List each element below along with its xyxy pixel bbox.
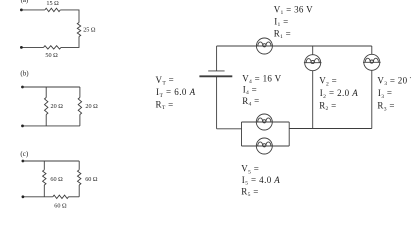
node: terminal a bottom — [20, 46, 23, 49]
svg-text:R2 =: R2 = — [319, 100, 336, 112]
svg-text:V3 = 20 V: V3 = 20 V — [377, 76, 411, 88]
wire b branch1 top — [45, 87, 47, 98]
wire branch 2 upper — [312, 46, 314, 55]
lamp 4 (box top) — [255, 114, 273, 130]
node: terminal c bottom — [22, 195, 25, 198]
wire main top — [217, 45, 372, 47]
node: terminal b top — [21, 86, 24, 89]
svg-text:I5 = 4.0 A: I5 = 4.0 A — [242, 175, 280, 187]
wire c bottom-right — [69, 196, 80, 198]
wire box bottom branch — [242, 145, 290, 147]
svg-text:(b): (b) — [20, 69, 29, 77]
lamp 1 (top) — [256, 38, 274, 54]
svg-text:60 Ω: 60 Ω — [50, 176, 63, 183]
lamp 2 — [304, 55, 322, 71]
svg-text:I1 =: I1 = — [274, 16, 288, 28]
wire branch 2 lower — [312, 71, 314, 129]
wire branch 3 lower — [371, 70, 373, 128]
svg-text:R5 =: R5 = — [241, 186, 258, 198]
svg-text:I4 =: I4 = — [243, 85, 257, 97]
svg-text:I2 = 2.0 A: I2 = 2.0 A — [320, 88, 359, 100]
wire b branch2 top — [79, 87, 81, 98]
wire to parallel box — [217, 128, 242, 130]
svg-text:25 Ω: 25 Ω — [83, 27, 96, 34]
resistor 60 ohm bottom — [53, 195, 69, 198]
wire a top-left — [21, 9, 45, 11]
wire a right-bottom — [61, 37, 79, 48]
svg-text:R4 =: R4 = — [242, 96, 259, 108]
resistor 60 ohm left — [43, 170, 46, 185]
svg-text:V1 = 36 V: V1 = 36 V — [274, 4, 313, 16]
svg-text:(c): (c) — [20, 150, 28, 158]
svg-text:(a): (a) — [21, 0, 29, 4]
wire a top-right — [60, 10, 79, 23]
node: terminal c top — [22, 160, 25, 163]
svg-text:60 Ω: 60 Ω — [85, 176, 98, 183]
svg-text:60 Ω: 60 Ω — [54, 202, 67, 209]
svg-text:I3 =: I3 = — [378, 88, 392, 100]
battery short plate — [208, 70, 224, 72]
wire c branch2 bottom — [78, 185, 80, 197]
wire bottom right — [289, 128, 372, 130]
svg-text:R1 =: R1 = — [274, 29, 291, 41]
svg-text:15 Ω: 15 Ω — [46, 0, 59, 7]
wire c branch2 top — [78, 161, 80, 170]
resistor 60 ohm right — [78, 170, 81, 185]
svg-text:20 Ω: 20 Ω — [51, 103, 64, 110]
wire b bottom — [23, 125, 80, 127]
wire a bottom-left — [21, 46, 43, 48]
resistor 50 ohm — [44, 46, 62, 49]
wire box right vertical — [288, 122, 290, 146]
wire c branch1 top — [43, 161, 45, 170]
wire c bottom-left — [23, 196, 53, 198]
svg-text:50 Ω: 50 Ω — [45, 52, 58, 59]
svg-text:R3 =: R3 = — [377, 101, 394, 113]
wire b top — [23, 86, 80, 88]
wire box top branch — [242, 121, 290, 123]
svg-text:V2 =: V2 = — [319, 76, 337, 88]
wire left vertical upper — [216, 46, 218, 71]
node: terminal b bottom — [21, 125, 24, 128]
resistor 15 ohm — [45, 8, 60, 11]
wire b branch2 bottom — [79, 115, 81, 126]
wire b branch1 bottom — [45, 115, 47, 126]
wire branch 3 upper — [371, 46, 373, 54]
wire c branch1 bottom — [43, 185, 45, 197]
wire c top — [23, 160, 79, 162]
node: terminal a top — [20, 9, 23, 12]
wire left vertical lower — [216, 76, 218, 129]
svg-text:20 Ω: 20 Ω — [85, 103, 98, 110]
lamp 5 (box bottom) — [255, 138, 273, 154]
resistor 20 ohm left — [45, 98, 48, 115]
svg-text:V4 = 16 V: V4 = 16 V — [242, 73, 281, 85]
battery long plate — [199, 75, 232, 77]
resistor 20 ohm right — [78, 98, 81, 115]
lamp 3 — [363, 54, 381, 70]
resistor 25 ohm — [77, 23, 80, 37]
wire box left vertical — [241, 122, 243, 146]
